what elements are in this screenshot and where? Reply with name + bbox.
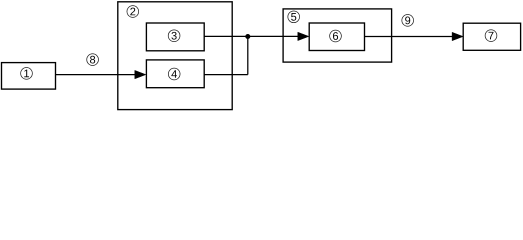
node 1 label	[21, 68, 33, 80]
junction dot	[245, 34, 250, 39]
wire vertical junction riser	[247, 36, 249, 74]
arrowhead into block 4	[135, 70, 146, 78]
block 2 outer box	[118, 2, 232, 110]
block 4 box	[146, 60, 204, 88]
block 6 box	[309, 23, 364, 51]
wire from block 4 to junction	[204, 74, 248, 76]
wire from block 6 to block 7	[365, 36, 454, 38]
arrowhead into block 7	[452, 32, 463, 40]
node 8 label	[87, 54, 99, 66]
wire from block 1 to block 4	[56, 74, 137, 76]
wire from block 3 to block 6	[204, 35, 299, 37]
node 7 label	[485, 30, 497, 42]
arrowhead into block 6	[298, 32, 309, 40]
block 7 box	[463, 23, 520, 50]
block 1 box	[2, 63, 56, 90]
node 2 label	[127, 6, 139, 18]
node 5 label	[288, 11, 300, 23]
block 3 box	[146, 23, 204, 51]
node 4 label	[168, 68, 180, 80]
node 3 label	[168, 30, 180, 42]
block 5 outer box	[283, 9, 392, 62]
node 9 label	[402, 15, 414, 27]
node 6 label	[330, 30, 342, 42]
